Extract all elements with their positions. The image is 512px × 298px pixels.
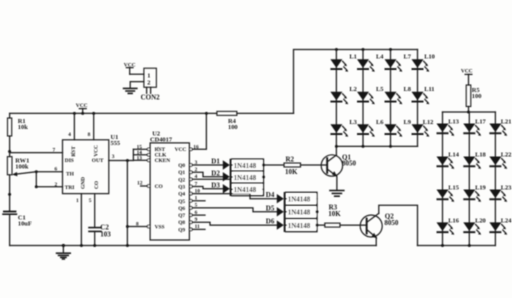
node RW1 wiper junction <box>35 170 38 173</box>
svg-text:Q5: Q5 <box>178 199 185 205</box>
LED L17 <box>463 119 486 136</box>
svg-text:L2: L2 <box>349 86 356 93</box>
LED L2 <box>330 86 356 104</box>
svg-text:D2: D2 <box>211 169 220 177</box>
svg-text:Q1: Q1 <box>178 170 185 176</box>
svg-text:CON2: CON2 <box>141 94 161 102</box>
diode D5 <box>266 204 284 216</box>
wire U2 pin2 Q1 <box>190 167 223 177</box>
wire LED column 7 <box>494 112 496 246</box>
LED L16 <box>437 217 460 234</box>
svg-text:D5: D5 <box>266 204 275 212</box>
LED L24 <box>489 217 512 234</box>
node rail junctions <box>73 112 208 115</box>
svg-text:L11: L11 <box>424 86 434 93</box>
svg-text:2: 2 <box>195 167 198 173</box>
wire LED column 3 <box>390 50 392 147</box>
svg-text:1N4148: 1N4148 <box>234 174 257 182</box>
svg-text:L14: L14 <box>448 152 459 159</box>
svg-text:D3: D3 <box>211 181 220 189</box>
wire label box D1-D3 <box>232 159 264 196</box>
svg-text:VCC: VCC <box>76 103 88 109</box>
node D bus junctions <box>262 164 265 179</box>
svg-text:11: 11 <box>195 224 200 230</box>
svg-text:L18: L18 <box>475 152 486 159</box>
svg-text:L19: L19 <box>475 185 486 192</box>
wire U2 pin13 CKEN <box>133 155 150 161</box>
svg-text:2: 2 <box>55 182 58 188</box>
svg-text:Q3: Q3 <box>178 185 185 191</box>
svg-text:7: 7 <box>53 148 56 154</box>
wire U2 pin14 CLK <box>133 150 150 156</box>
wire VCC to CON2 pin1 <box>130 73 144 75</box>
svg-text:1: 1 <box>76 198 79 204</box>
svg-text:100k: 100k <box>15 163 29 170</box>
svg-text:L6: L6 <box>376 119 384 126</box>
wire U2 pin3 Q0 <box>190 160 223 167</box>
ground (main bus) <box>57 246 71 260</box>
svg-text:D6: D6 <box>266 218 275 226</box>
wire CON2 pin2 to ground <box>130 82 144 89</box>
wire U2 pin7 Q3 <box>190 181 223 189</box>
svg-text:8: 8 <box>136 222 139 228</box>
svg-text:5: 5 <box>195 203 198 209</box>
svg-text:6: 6 <box>195 210 198 216</box>
svg-text:1N4148: 1N4148 <box>234 186 257 194</box>
wire LED column 1 <box>335 50 337 147</box>
wire riser to LED bus <box>294 50 418 114</box>
svg-text:9: 9 <box>195 217 198 223</box>
svg-text:10K: 10K <box>328 210 341 218</box>
wire 555 pin1 GND <box>76 194 81 246</box>
wire 555 pin8 VCC <box>88 113 94 139</box>
connector CON2 <box>141 68 161 101</box>
vcc symbol (555 rail) <box>76 103 88 114</box>
svg-text:Q9: Q9 <box>178 227 185 233</box>
LED L15 <box>437 185 459 202</box>
svg-text:10k: 10k <box>18 124 28 131</box>
svg-text:Q0: Q0 <box>178 163 185 169</box>
wire label box D4-D6 <box>286 192 317 232</box>
LED L10 <box>412 53 435 71</box>
diode D3 <box>211 181 230 193</box>
svg-text:1: 1 <box>147 72 150 79</box>
svg-text:L9: L9 <box>404 119 411 126</box>
svg-text:VCC: VCC <box>461 69 473 75</box>
wire LED column 6 <box>468 112 470 246</box>
svg-text:Q4: Q4 <box>178 192 185 198</box>
svg-text:L23: L23 <box>501 185 512 192</box>
svg-text:12: 12 <box>137 180 143 186</box>
node TRI junction <box>35 185 38 188</box>
svg-text:Q2: Q2 <box>178 177 185 183</box>
node DIS junction <box>8 150 11 153</box>
resistor R4 <box>217 111 294 131</box>
wire U2 pin15 RST <box>133 144 150 150</box>
LED L1 <box>330 53 356 71</box>
LED L6 <box>357 119 384 137</box>
svg-text:13: 13 <box>137 155 143 161</box>
diode D4 <box>266 191 284 203</box>
wire U2 pin6 Q7 stub <box>190 210 206 217</box>
wire U2 pin12 CO stub <box>137 180 150 187</box>
wire clock bus vertical <box>132 149 134 160</box>
diode D2 <box>211 169 230 181</box>
node D4-6 bus junctions <box>316 210 319 226</box>
svg-text:1N4148: 1N4148 <box>288 222 311 230</box>
LED L22 <box>489 152 511 169</box>
svg-text:1N4148: 1N4148 <box>288 209 311 217</box>
capacitor C2 <box>89 224 111 246</box>
svg-text:OUT: OUT <box>92 158 104 164</box>
wire U2 pin8 VSS <box>127 222 150 228</box>
potentiometer RW1 <box>7 152 36 212</box>
wire U2 pin16 VCC <box>190 113 207 150</box>
svg-text:4: 4 <box>195 174 198 180</box>
wire left group bottom bus <box>336 145 417 147</box>
svg-text:103: 103 <box>100 231 111 239</box>
LED L7 <box>385 53 412 71</box>
svg-text:DIS: DIS <box>65 158 74 164</box>
svg-text:CKEN: CKEN <box>155 158 171 164</box>
svg-text:TH: TH <box>66 171 75 177</box>
svg-text:L10: L10 <box>424 53 435 60</box>
LED L4 <box>357 53 384 71</box>
svg-text:CO: CO <box>94 181 100 189</box>
wire ground drop x127 <box>126 161 128 246</box>
ic U2 CD4017 <box>150 131 189 241</box>
ground (Q1) <box>330 191 344 197</box>
svg-text:TRI: TRI <box>65 185 75 191</box>
transistor Q2 8050 <box>360 205 417 245</box>
LED L21 <box>489 119 511 136</box>
svg-text:L12: L12 <box>423 119 434 126</box>
svg-text:1N4148: 1N4148 <box>288 196 311 204</box>
svg-text:1: 1 <box>195 196 198 202</box>
wire U2 pin9 Q8 <box>190 217 277 225</box>
svg-text:L5: L5 <box>376 86 383 93</box>
svg-text:Q7: Q7 <box>178 213 185 219</box>
svg-text:L7: L7 <box>404 53 412 60</box>
node right bottom bus junctions <box>441 244 471 247</box>
node top bus junctions <box>335 48 392 51</box>
wire TRI to 555 pin2 <box>36 182 62 188</box>
svg-text:L24: L24 <box>501 217 512 224</box>
node cathode bar D1-D3 <box>230 159 232 196</box>
wire U2 pin5 Q6 <box>190 203 277 212</box>
ic U1 555 timer <box>63 134 121 194</box>
resistor R3 <box>317 204 366 228</box>
svg-text:R2: R2 <box>286 156 295 164</box>
svg-text:L4: L4 <box>376 53 384 60</box>
svg-text:7: 7 <box>195 181 198 187</box>
node ground bus junctions <box>62 244 129 247</box>
LED L9 <box>385 119 411 137</box>
LED L12 <box>412 119 434 137</box>
wire U2 pin11 Q9 stub <box>190 224 206 231</box>
svg-text:RST: RST <box>71 146 77 157</box>
wire right group top bus <box>443 111 496 113</box>
node C1 junction <box>8 193 11 196</box>
node OUT junction <box>126 159 129 162</box>
svg-text:6: 6 <box>55 167 58 173</box>
svg-text:L17: L17 <box>475 119 486 126</box>
svg-text:8050: 8050 <box>384 219 399 227</box>
LED L3 <box>330 119 356 137</box>
resistor R5 <box>466 74 481 112</box>
svg-text:100: 100 <box>228 124 238 131</box>
LED L18 <box>463 152 485 169</box>
wire U2 pin10 Q4 <box>190 188 277 198</box>
svg-text:L22: L22 <box>501 152 512 159</box>
wire LED column 4 <box>417 50 419 147</box>
svg-text:3: 3 <box>112 154 115 160</box>
svg-text:8050: 8050 <box>342 160 357 168</box>
vcc symbol (CON2) <box>124 62 136 74</box>
svg-text:VCC: VCC <box>175 147 187 153</box>
svg-text:10K: 10K <box>285 168 298 176</box>
svg-text:L21: L21 <box>501 119 512 126</box>
svg-text:16: 16 <box>193 144 199 150</box>
vcc symbol (R5) <box>461 69 473 75</box>
svg-text:555: 555 <box>111 140 121 147</box>
node bottom bus junctions <box>362 145 393 148</box>
svg-text:VCC: VCC <box>93 145 99 157</box>
LED L8 <box>385 86 411 104</box>
wire DIS to 555 pin7 <box>10 148 63 154</box>
node R5 bus junction <box>467 111 470 114</box>
svg-text:3: 3 <box>195 160 198 166</box>
wire LED column 2 <box>362 50 364 147</box>
wire LED column 5 <box>442 112 444 246</box>
resistor R1 <box>8 113 29 151</box>
svg-text:100: 100 <box>472 93 482 100</box>
svg-text:Q8: Q8 <box>178 220 185 226</box>
svg-text:CD4017: CD4017 <box>150 137 173 144</box>
svg-text:L20: L20 <box>475 217 486 224</box>
wire 555 pin5 CO <box>89 194 95 228</box>
ground (CON2) <box>124 88 137 93</box>
svg-text:10: 10 <box>195 188 201 194</box>
transistor Q1 8050 <box>321 146 356 190</box>
svg-text:L8: L8 <box>404 86 411 93</box>
svg-text:Q6: Q6 <box>178 206 185 212</box>
svg-text:GND: GND <box>80 177 86 189</box>
wire 555 pin4 RST <box>68 113 74 139</box>
diode D6 <box>266 218 284 230</box>
LED L20 <box>463 217 485 234</box>
LED L19 <box>463 185 485 202</box>
capacitor C1 <box>3 211 32 246</box>
LED L23 <box>489 185 511 202</box>
svg-text:L15: L15 <box>448 185 459 192</box>
svg-text:L3: L3 <box>349 119 356 126</box>
wire TRI link <box>35 172 37 187</box>
wire U2 pin4 Q2 <box>190 174 230 181</box>
svg-text:L13: L13 <box>448 119 459 126</box>
svg-text:VSS: VSS <box>155 225 165 231</box>
svg-text:D1: D1 <box>211 158 220 166</box>
svg-text:L16: L16 <box>448 217 459 224</box>
diode D1 <box>211 158 230 170</box>
svg-text:D4: D4 <box>266 191 275 199</box>
svg-text:CO: CO <box>155 184 163 190</box>
wire ground bus <box>10 245 377 247</box>
wire 555 pin3 OUT <box>109 154 134 160</box>
wire VCC power rail <box>10 112 217 114</box>
LED L5 <box>357 86 383 104</box>
svg-text:5: 5 <box>89 198 92 204</box>
wire TH to 555 pin6 <box>36 167 62 173</box>
svg-text:4: 4 <box>68 132 71 138</box>
node VSS junction <box>126 225 129 228</box>
svg-text:L1: L1 <box>349 53 356 60</box>
svg-text:10uF: 10uF <box>18 220 32 227</box>
wire right group bottom bus <box>418 245 496 247</box>
node cathode bar D4-D6 <box>284 192 286 232</box>
LED L11 <box>412 86 435 104</box>
svg-text:1N4148: 1N4148 <box>234 162 257 170</box>
LED L14 <box>437 152 460 169</box>
LED L13 <box>437 119 459 136</box>
resistor R2 <box>264 156 327 177</box>
svg-text:8: 8 <box>88 132 91 138</box>
svg-text:2: 2 <box>147 79 150 86</box>
wire U2 pin1 Q5 stub <box>190 196 206 203</box>
